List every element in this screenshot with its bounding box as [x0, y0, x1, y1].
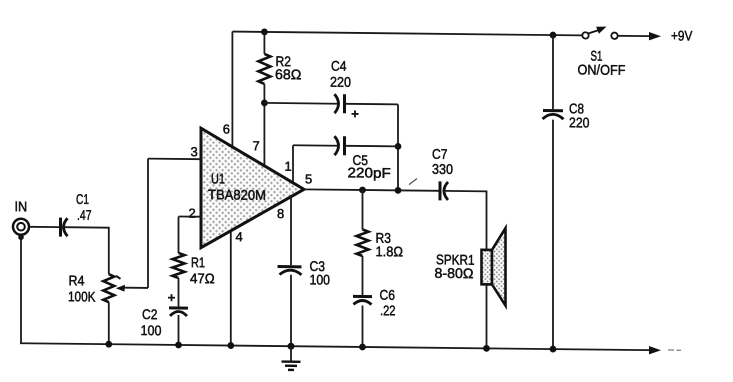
svg-text:6: 6	[223, 121, 230, 136]
node R4 bottom junction	[105, 341, 112, 348]
top supply rail wire	[232, 32, 582, 36]
svg-text:330: 330	[432, 161, 453, 177]
resistor R1	[173, 253, 185, 278]
svg-text:100: 100	[310, 271, 331, 287]
wire wiper shaft	[124, 287, 148, 289]
wire C8 top	[552, 35, 554, 109]
wire C3 bottom	[290, 275, 292, 347]
ground symbol	[290, 346, 292, 361]
svg-text:TBA820M: TBA820M	[208, 186, 266, 203]
svg-text:+9V: +9V	[671, 27, 693, 43]
wire	[668, 349, 681, 351]
capacitor C6	[353, 295, 372, 298]
wire pin2 horizontal	[179, 215, 202, 217]
wire C7 to speaker	[445, 191, 487, 250]
svg-text:100K: 100K	[68, 288, 96, 304]
svg-text:3: 3	[191, 144, 198, 159]
svg-text:1: 1	[285, 159, 292, 174]
svg-text:8: 8	[277, 206, 284, 221]
wire jack shield down	[20, 237, 22, 343]
svg-text:.47: .47	[77, 207, 92, 223]
node C2 bottom junction	[175, 342, 182, 349]
potentiometer R4 wiper arrow	[116, 285, 125, 292]
wire R3 top	[362, 190, 364, 230]
svg-text:1.8Ω: 1.8Ω	[376, 243, 404, 259]
svg-text:C7: C7	[432, 146, 448, 162]
wire pin1 to C5	[293, 144, 338, 146]
speaker SPKR1	[482, 250, 493, 285]
svg-text:5: 5	[305, 171, 312, 186]
wire C6 bottom	[362, 305, 364, 347]
switch S1	[582, 32, 588, 38]
capacitor C3	[278, 265, 302, 268]
capacitor C1	[59, 218, 62, 237]
node pin7/R2/C4 junction	[261, 99, 268, 106]
wire speaker bottom	[486, 284, 488, 348]
wire R2 bottom to pin7 node	[263, 84, 265, 166]
wire node to C4	[264, 102, 338, 105]
arrow bottom rail	[649, 346, 661, 355]
wire C1 to R4	[65, 227, 109, 274]
svg-text:100: 100	[141, 322, 162, 338]
svg-text:7: 7	[253, 138, 260, 153]
wire C5 right	[346, 145, 399, 148]
svg-text:47Ω: 47Ω	[190, 270, 215, 286]
wire switch to +9V arrow	[619, 35, 651, 37]
svg-text:IN: IN	[15, 198, 28, 214]
svg-text:C4: C4	[331, 58, 347, 74]
svg-text:220pF: 220pF	[348, 164, 391, 180]
wire C2 bottom	[178, 315, 180, 345]
capacitor C2 (polarized)	[169, 306, 188, 309]
node supply/C8 junction	[550, 32, 557, 39]
svg-text:U1: U1	[211, 170, 225, 186]
wire pot wiper riser	[147, 159, 149, 288]
node C6 bottom junction	[359, 344, 366, 351]
wire pin1 vertical	[292, 145, 294, 183]
svg-text:C6: C6	[380, 287, 396, 303]
wire pin6 vertical	[231, 32, 233, 147]
op-amp U1 TBA820M	[201, 128, 304, 249]
node C8 bottom junction	[550, 346, 557, 353]
wire feedback column vertical	[397, 104, 399, 190]
svg-text:R1: R1	[191, 254, 205, 270]
potentiometer R4	[103, 274, 114, 302]
svg-text:ON/OFF: ON/OFF	[577, 61, 625, 78]
arrow +9V top	[649, 32, 661, 41]
wire R4 bottom	[108, 302, 110, 344]
wire pin8 vertical	[290, 196, 292, 265]
wire jack to C1	[29, 226, 59, 228]
svg-text:220: 220	[330, 74, 351, 90]
node C5 right junction	[395, 143, 402, 150]
wire C4 right to feedback column	[346, 103, 399, 106]
capacitor C8	[543, 109, 563, 112]
wire C8 bottom	[552, 120, 554, 350]
svg-text:4: 4	[236, 229, 243, 244]
resistor R3	[357, 229, 369, 256]
svg-text:220: 220	[569, 114, 590, 130]
node ground junction	[288, 343, 295, 350]
capacitor C4	[335, 94, 339, 113]
wire R1 top	[178, 216, 180, 253]
svg-text:8-80Ω: 8-80Ω	[435, 265, 474, 281]
node output R3 junction	[359, 187, 366, 194]
svg-text:C2: C2	[142, 306, 158, 322]
wire pin4 vertical	[230, 231, 232, 345]
wire R2 top	[263, 32, 265, 54]
wire R3 to C6	[362, 256, 364, 295]
wire pin5 output	[304, 189, 439, 190]
node R2 top junction	[261, 28, 268, 35]
node output feedback junction	[395, 187, 402, 194]
svg-text:2: 2	[189, 206, 196, 221]
resistor R2	[258, 54, 270, 84]
bottom ground rail wire	[20, 343, 650, 350]
node pin4 bottom junction	[227, 342, 234, 349]
svg-text:68Ω: 68Ω	[275, 66, 301, 82]
wire R1 to C2	[178, 278, 180, 307]
wire	[409, 178, 417, 184]
svg-text:.22: .22	[380, 302, 396, 318]
capacitor C7	[439, 181, 442, 200]
svg-text:C1: C1	[76, 191, 89, 207]
svg-text:R4: R4	[69, 272, 85, 288]
capacitor C5	[335, 136, 339, 155]
wire pin3 horizontal	[148, 158, 201, 161]
node speaker bottom junction	[483, 345, 490, 352]
